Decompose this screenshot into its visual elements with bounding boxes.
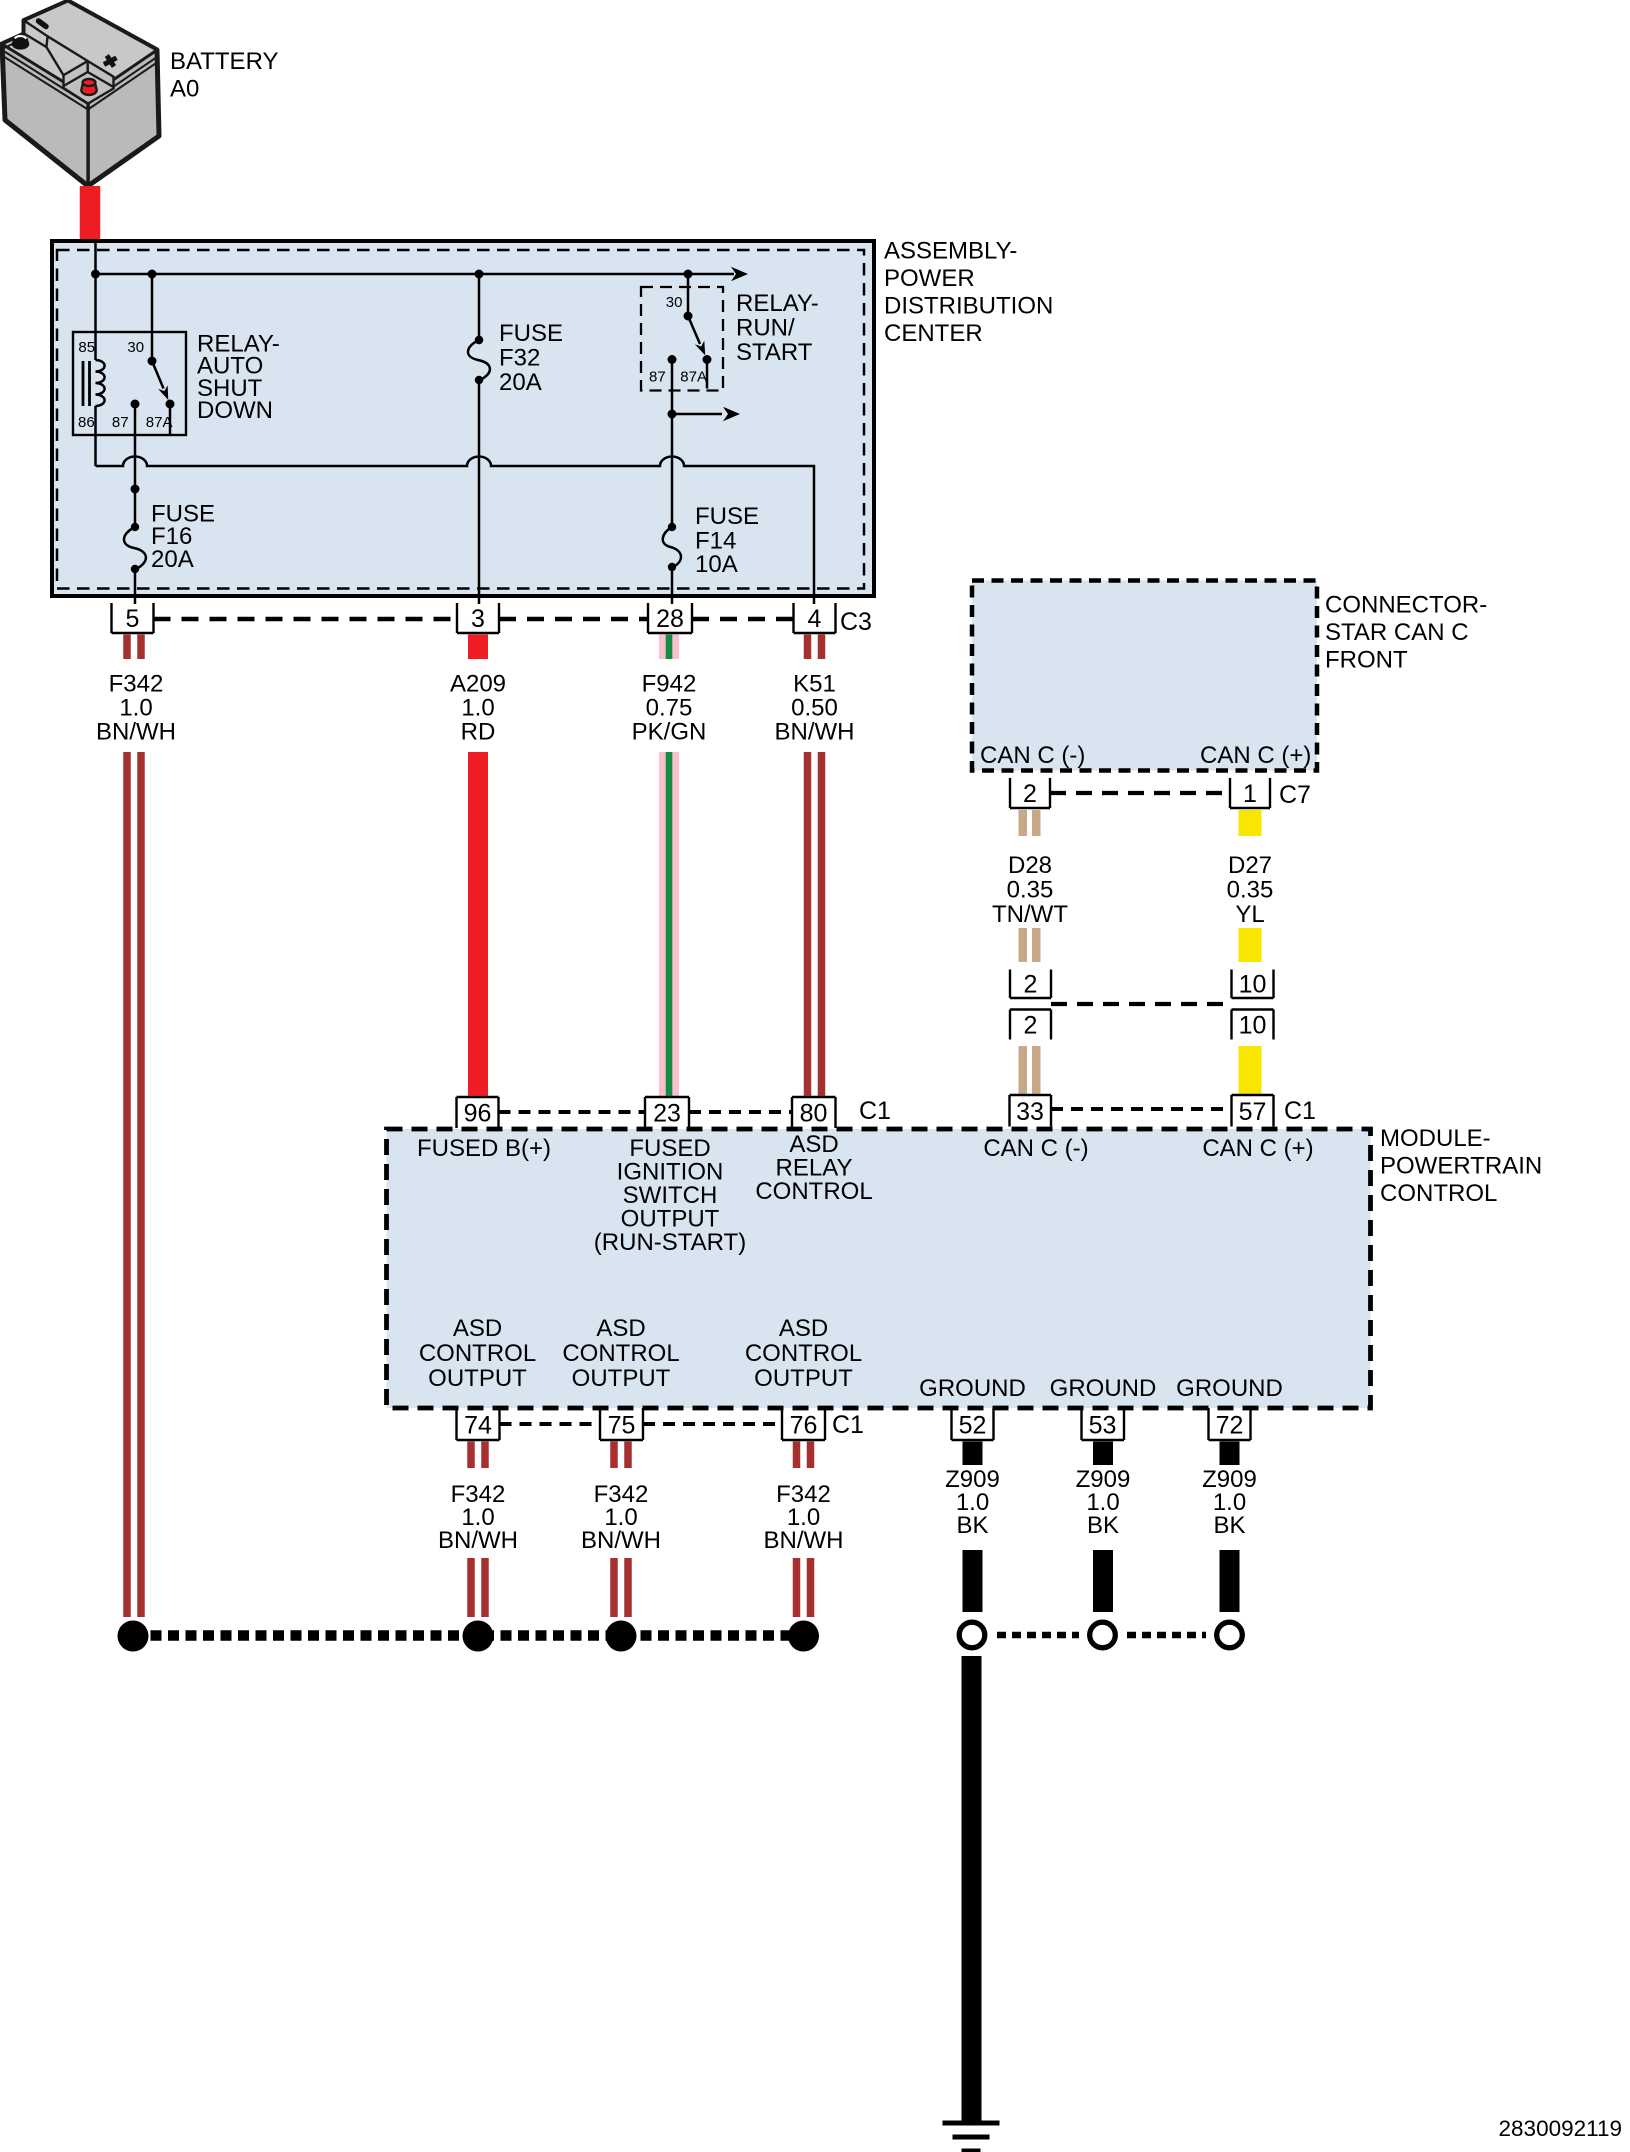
svg-text:2: 2 — [1023, 780, 1037, 808]
wire A209 1.0 RD — [468, 635, 488, 1096]
ground splice ring (pin 53) — [1090, 1622, 1116, 1648]
wire D28 0.35 TN/WT — [1019, 810, 1041, 1094]
wire fuse F16 to pin 5 — [134, 569, 137, 604]
svg-text:ASD: ASD — [596, 1315, 645, 1342]
svg-text:23: 23 — [653, 1100, 681, 1128]
ground splice ring (pin 52) — [959, 1622, 985, 1648]
svg-text:86: 86 — [78, 414, 95, 431]
PCM pin 96 — [457, 1097, 499, 1128]
wire K51 0.50 BN/WH — [804, 635, 826, 1096]
label GROUND (pin 52) — [919, 1375, 1026, 1402]
svg-text:CAN C (-): CAN C (-) — [980, 742, 1085, 769]
svg-text:FUSE: FUSE — [695, 503, 759, 530]
svg-text:POWERTRAIN: POWERTRAIN — [1380, 1153, 1542, 1180]
label FUSE F14 10A — [695, 503, 759, 578]
svg-text:BK: BK — [1087, 1512, 1119, 1539]
battery A0 — [2, 1, 159, 186]
splice junction dashed bus — [133, 1630, 804, 1641]
ground symbol — [943, 2121, 1000, 2152]
svg-text:OUTPUT: OUTPUT — [572, 1365, 671, 1392]
svg-text:53: 53 — [1089, 1412, 1117, 1440]
svg-text:BN/WH: BN/WH — [581, 1527, 661, 1554]
connector C7 pin 1 — [1230, 778, 1270, 808]
svg-text:FRONT: FRONT — [1325, 647, 1408, 674]
svg-text:1.0: 1.0 — [461, 695, 494, 722]
dashed links 74-75-76 — [500, 1422, 783, 1426]
label FUSED IGNITION SWITCH OUTPUT (RUN-START) — [594, 1135, 746, 1256]
svg-text:CONTROL: CONTROL — [745, 1340, 862, 1367]
label C7 — [1279, 781, 1311, 809]
label ASSEMBLY-POWER DISTRIBUTION CENTER — [884, 238, 1053, 348]
fuse F32 20A with wires — [468, 274, 490, 604]
label ASD RELAY CONTROL — [755, 1131, 872, 1205]
wire Z909 to ground — [962, 1656, 982, 2121]
svg-text:OUTPUT: OUTPUT — [754, 1365, 853, 1392]
svg-text:STAR CAN C: STAR CAN C — [1325, 619, 1469, 646]
wire battery positive (red) — [80, 186, 101, 241]
svg-text:TN/WT: TN/WT — [992, 901, 1068, 928]
label RELAY-AUTO SHUT DOWN — [197, 331, 280, 425]
svg-text:75: 75 — [608, 1412, 636, 1440]
splice dot (pin 74) — [463, 1621, 494, 1652]
relay R1 pin labels 85 30 86 87 87A — [78, 339, 173, 431]
label D28 0.35 TN/WT — [992, 852, 1068, 928]
ground splice ring (pin 72) — [1217, 1622, 1243, 1648]
label FUSE F16 20A — [151, 501, 215, 574]
svg-text:CONTROL: CONTROL — [419, 1340, 536, 1367]
svg-text:96: 96 — [464, 1100, 492, 1128]
svg-text:CAN C (+): CAN C (+) — [1200, 742, 1311, 769]
svg-text:RUN/: RUN/ — [736, 315, 795, 342]
label D27 0.35 YL — [1227, 852, 1274, 928]
label C1 (bottom pins) — [832, 1411, 864, 1439]
svg-text:CONTROL: CONTROL — [755, 1178, 872, 1205]
label ASD CONTROL OUTPUT (pin 74) — [419, 1315, 536, 1392]
svg-text:85: 85 — [78, 339, 95, 356]
svg-text:FUSED B(+): FUSED B(+) — [417, 1135, 551, 1162]
svg-text:C1: C1 — [832, 1411, 864, 1439]
svg-text:BK: BK — [1213, 1512, 1245, 1539]
relay R2 pin labels 30 87 87A — [649, 294, 707, 386]
svg-text:0.50: 0.50 — [791, 695, 838, 722]
svg-text:0.35: 0.35 — [1227, 877, 1274, 904]
wire Z909 1.0 BK (pin 52) — [963, 1442, 983, 1613]
svg-text:ASSEMBLY-: ASSEMBLY- — [884, 238, 1017, 265]
connector C3 pin 28 — [648, 603, 692, 633]
svg-text:DISTRIBUTION: DISTRIBUTION — [884, 293, 1053, 320]
connector C3 pin 4 — [794, 603, 836, 633]
ground splice dashed links — [997, 1632, 1206, 1639]
svg-text:CAN C (+): CAN C (+) — [1202, 1135, 1313, 1162]
svg-text:CONTROL: CONTROL — [1380, 1180, 1497, 1207]
wire B+ feed bus with arrow — [91, 241, 748, 281]
svg-text:30: 30 — [127, 339, 144, 356]
dashed links 96-23-80 — [499, 1110, 793, 1114]
PCM pin 76 — [782, 1408, 825, 1440]
svg-text:F942: F942 — [642, 671, 697, 698]
svg-text:BK: BK — [956, 1512, 988, 1539]
fuse F14 10A — [663, 523, 681, 604]
svg-text:A209: A209 — [450, 671, 506, 698]
label FUSE F32 20A — [499, 320, 563, 396]
dashed link 33-57 — [1051, 1107, 1232, 1111]
svg-text:A0: A0 — [170, 76, 199, 103]
label CAN C (+) in PCM — [1202, 1135, 1313, 1162]
PCM pin 74 — [457, 1408, 500, 1440]
label F342 1.0 BN/WH (pin 74) — [438, 1481, 518, 1554]
label ASD CONTROL OUTPUT (pin 76) — [745, 1315, 862, 1392]
label GROUND (pin 53) — [1050, 1375, 1157, 1402]
PCM pin 75 — [600, 1408, 643, 1440]
svg-text:POWER: POWER — [884, 265, 975, 292]
svg-text:D28: D28 — [1008, 852, 1052, 879]
svg-text:10: 10 — [1239, 1012, 1267, 1040]
label RELAY-RUN/START — [736, 290, 819, 366]
label C3 — [840, 608, 872, 636]
svg-text:80: 80 — [800, 1100, 828, 1128]
PCM pin 80 — [792, 1097, 836, 1128]
svg-text:28: 28 — [656, 605, 684, 633]
label CAN C (-) in PCM — [983, 1135, 1088, 1162]
svg-text:BATTERY: BATTERY — [170, 48, 278, 75]
PCM pin 72 — [1209, 1408, 1251, 1440]
node CAN C (+) label in star box — [1200, 742, 1311, 769]
svg-text:72: 72 — [1216, 1412, 1244, 1440]
svg-text:FUSE: FUSE — [499, 320, 563, 347]
svg-text:C7: C7 — [1279, 781, 1311, 809]
PCM pin 53 — [1082, 1408, 1125, 1440]
svg-text:(RUN-START): (RUN-START) — [594, 1229, 746, 1256]
inline connector upper pin 10 — [1232, 970, 1274, 999]
svg-text:BN/WH: BN/WH — [438, 1527, 518, 1554]
svg-text:2: 2 — [1024, 1012, 1038, 1040]
inline connector lower pin 2 — [1010, 1010, 1051, 1040]
svg-text:C1: C1 — [1284, 1097, 1316, 1125]
svg-text:CENTER: CENTER — [884, 320, 983, 347]
svg-text:1.0: 1.0 — [119, 695, 152, 722]
label F342 1.0 BN/WH (pin 76) — [764, 1481, 844, 1554]
svg-text:0.75: 0.75 — [646, 695, 693, 722]
wire ASD 87 to fuse F16 — [131, 404, 140, 527]
PCM pin 23 — [645, 1097, 689, 1128]
svg-text:C1: C1 — [859, 1097, 891, 1125]
inline connector lower pin 10 — [1232, 1010, 1274, 1040]
label ASD CONTROL OUTPUT (pin 75) — [562, 1315, 679, 1392]
splice dot (F342 left) — [118, 1621, 149, 1652]
svg-text:4: 4 — [808, 605, 822, 633]
svg-text:CAN C (-): CAN C (-) — [983, 1135, 1088, 1162]
relay R1 relay-auto shut down — [73, 274, 186, 466]
box connector-star CAN C front — [972, 581, 1317, 771]
box assembly-power distribution center — [52, 241, 874, 596]
wire F942 0.75 PK/GN — [659, 635, 679, 1096]
label F942 0.75 PK/GN — [632, 671, 707, 746]
label C1 (CAN pins) — [1284, 1097, 1316, 1125]
svg-text:D27: D27 — [1228, 852, 1272, 879]
svg-text:F342: F342 — [109, 671, 164, 698]
connector C7 pin 2 — [1010, 778, 1050, 808]
PCM pin 33 — [1010, 1095, 1052, 1127]
svg-text:CONTROL: CONTROL — [562, 1340, 679, 1367]
svg-text:10: 10 — [1239, 971, 1267, 999]
svg-text:START: START — [736, 339, 813, 366]
wire F342 1.0 BN/WH (pin 76 to splice) — [793, 1442, 815, 1618]
svg-text:DOWN: DOWN — [197, 397, 273, 424]
svg-text:87A: 87A — [680, 369, 707, 386]
svg-text:YL: YL — [1235, 901, 1264, 928]
svg-text:F32: F32 — [499, 345, 540, 372]
label FUSED B(+) — [417, 1135, 551, 1162]
svg-text:BN/WH: BN/WH — [775, 719, 855, 746]
dashed link inline connector — [1051, 1002, 1232, 1006]
svg-text:10A: 10A — [695, 551, 738, 578]
PCM pin 52 — [952, 1408, 994, 1440]
label Z909 1.0 BK (pin 53) — [1076, 1466, 1131, 1539]
wire run/start 87 with branch arrow — [668, 360, 741, 528]
svg-text:20A: 20A — [151, 546, 194, 573]
svg-text:GROUND: GROUND — [1050, 1375, 1157, 1402]
label CONNECTOR-STAR CAN C FRONT — [1325, 592, 1487, 674]
svg-text:74: 74 — [464, 1412, 492, 1440]
label GROUND (pin 72) — [1176, 1375, 1283, 1402]
wire F342 1.0 BN/WH (pin 75 to splice) — [610, 1442, 632, 1618]
battery label BATTERY A0 — [170, 48, 278, 103]
svg-text:BN/WH: BN/WH — [96, 719, 176, 746]
wire Z909 1.0 BK (pin 53) — [1093, 1442, 1113, 1613]
svg-text:87: 87 — [112, 414, 129, 431]
svg-text:C3: C3 — [840, 608, 872, 636]
fuse F16 20A — [124, 523, 146, 573]
svg-text:5: 5 — [126, 605, 140, 633]
box module-powertrain control — [387, 1129, 1371, 1408]
svg-text:2830092119: 2830092119 — [1499, 2116, 1622, 2141]
wire D27 0.35 YL — [1239, 810, 1262, 1094]
svg-text:BN/WH: BN/WH — [764, 1527, 844, 1554]
svg-text:0.35: 0.35 — [1007, 877, 1054, 904]
node CAN C (-) label in star box — [980, 742, 1085, 769]
PCM pin 57 — [1232, 1095, 1274, 1127]
dashed links C3 pins — [154, 617, 794, 622]
svg-text:RD: RD — [461, 719, 496, 746]
svg-text:30: 30 — [666, 294, 683, 311]
connector C3 pin 5 — [112, 603, 154, 633]
inline connector upper pin 2 — [1010, 970, 1051, 999]
wire F342 1.0 BN/WH (pin 74 to splice) — [467, 1442, 489, 1618]
splice dot (pin 76) — [788, 1621, 819, 1652]
svg-text:K51: K51 — [793, 671, 836, 698]
svg-text:1: 1 — [1243, 780, 1257, 808]
label drawing number 2830092119 — [1499, 2116, 1622, 2141]
label Z909 1.0 BK (pin 52) — [945, 1466, 1000, 1539]
label F342 1.0 BN/WH — [96, 671, 176, 746]
svg-text:PK/GN: PK/GN — [632, 719, 707, 746]
label C1 (top pins) — [859, 1097, 891, 1125]
svg-text:OUTPUT: OUTPUT — [428, 1365, 527, 1392]
relay R2 relay-run/start — [641, 274, 723, 391]
svg-text:3: 3 — [471, 605, 485, 633]
svg-text:ASD: ASD — [453, 1315, 502, 1342]
label Z909 1.0 BK (pin 72) — [1202, 1466, 1257, 1539]
svg-text:ASD: ASD — [779, 1315, 828, 1342]
svg-text:GROUND: GROUND — [919, 1375, 1026, 1402]
svg-text:RELAY-: RELAY- — [736, 290, 819, 317]
svg-text:MODULE-: MODULE- — [1380, 1125, 1491, 1152]
svg-text:87A: 87A — [146, 414, 173, 431]
svg-text:20A: 20A — [499, 369, 542, 396]
splice dot (pin 75) — [606, 1621, 637, 1652]
svg-text:CONNECTOR-: CONNECTOR- — [1325, 592, 1487, 619]
dashed link C7 pins — [1050, 791, 1230, 795]
svg-text:GROUND: GROUND — [1176, 1375, 1283, 1402]
wire Z909 1.0 BK (pin 72) — [1220, 1442, 1240, 1613]
svg-text:33: 33 — [1016, 1098, 1044, 1126]
wire bus 86 to pin 4 (with crossover hops) — [96, 457, 815, 605]
svg-text:87: 87 — [649, 369, 666, 386]
svg-text:52: 52 — [959, 1412, 987, 1440]
svg-text:76: 76 — [790, 1412, 818, 1440]
svg-text:57: 57 — [1239, 1098, 1267, 1126]
label A209 1.0 RD — [450, 671, 506, 746]
label F342 1.0 BN/WH (pin 75) — [581, 1481, 661, 1554]
label MODULE-POWERTRAIN CONTROL — [1380, 1125, 1542, 1207]
svg-text:2: 2 — [1024, 971, 1038, 999]
connector C3 pin 3 — [457, 603, 499, 633]
label K51 0.50 BN/WH — [775, 671, 855, 746]
wire F342 1.0 BN/WH (pin 5 to splice) — [123, 635, 145, 1618]
